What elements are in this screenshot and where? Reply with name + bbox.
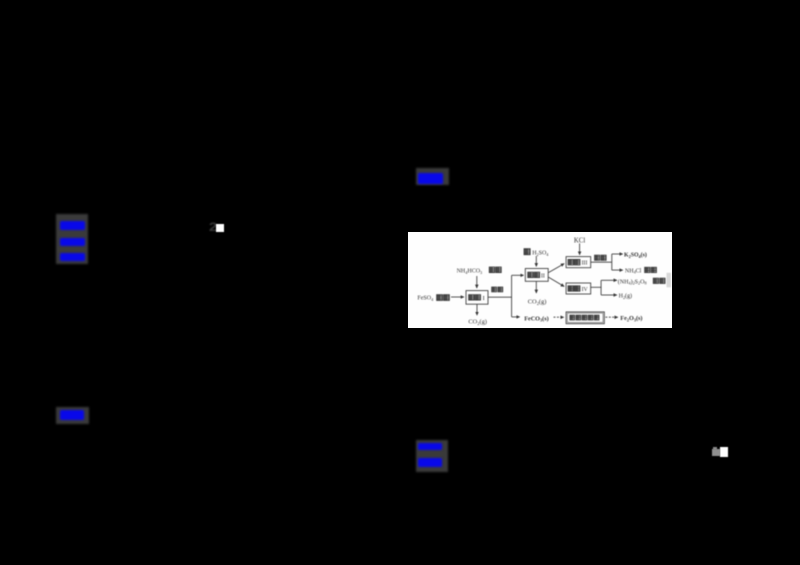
label filter 1 hanzi [492, 287, 503, 292]
svg-text:(NH4)2S2O8: (NH4)2S2O8 [618, 279, 647, 286]
wire: dilute H2SO4 down arrow into box II [535, 256, 537, 266]
label filter 2 hanzi [595, 255, 607, 260]
wire: box II down arrow to CO2(g) [535, 281, 537, 293]
svg-text:NH4Cl: NH4Cl [625, 268, 642, 274]
wire: box III to filter junction [591, 261, 612, 263]
answer highlight group D background (lower-right column) [416, 440, 448, 473]
svg-text:CO2(g): CO2(g) [528, 299, 547, 306]
wire: arrow into reaction II box [512, 274, 524, 276]
svg-text:K2SO4(s): K2SO4(s) [624, 252, 647, 259]
label reaction IV hanzi [568, 286, 588, 293]
label FeSO4 solution hanzi [437, 295, 450, 301]
wire: dashed arrow FeCO3 to calcine box [554, 316, 564, 318]
wire: diagonal box II to box IV [548, 277, 564, 286]
svg-text:CO2(g): CO2(g) [468, 319, 487, 326]
svg-text:H2SO4: H2SO4 [532, 251, 549, 257]
box calcine in air outer [566, 312, 604, 324]
wire: arrow to NH4Cl solution [612, 269, 623, 271]
svg-text:KCl: KCl [574, 238, 585, 245]
svg-text:FeSO4: FeSO4 [417, 296, 434, 302]
box reaction II [525, 269, 548, 282]
wire: arrow to H2(g) [601, 294, 617, 296]
label reaction I hanzi [469, 295, 485, 302]
wire: diagonal box II to box III [548, 264, 564, 273]
box reaction I [466, 291, 488, 305]
label NH4HCO3 solution hanzi [489, 267, 501, 272]
wire: NH4HCO3 solution down arrow into box I [476, 276, 478, 288]
text cursor white block [216, 224, 224, 232]
wire: KCl down arrow into box III [579, 243, 581, 254]
svg-text:H2(g): H2(g) [619, 293, 632, 300]
svg-text:I: I [483, 295, 485, 302]
small icon white block [720, 447, 728, 456]
scan artifact light strip at panel right edge [667, 273, 672, 288]
label (NH4)2S2O8 solution hanzi [653, 278, 665, 283]
answer highlight group A background (top-left) [56, 214, 88, 264]
wire: box IV to junction [591, 286, 601, 288]
answer blue line A1 [60, 221, 86, 230]
wire: arrow to K2SO4(s) [612, 253, 623, 255]
label calcine in air hanzi [570, 315, 599, 320]
answer highlight group C background (lower-left) [56, 407, 90, 425]
answer blue line B1 [418, 173, 443, 184]
svg-text:II: II [541, 273, 545, 279]
wire: vertical junction line [511, 275, 513, 317]
answer blue line D2 [418, 458, 442, 467]
svg-text:IV: IV [582, 287, 589, 293]
wire: arrow to FeCO3(s) [512, 316, 520, 318]
svg-text:NH4HCO3: NH4HCO3 [457, 269, 483, 275]
svg-text:III: III [582, 261, 588, 267]
small icon gray body (bottom-right) [712, 449, 720, 456]
answer blue line A2 [60, 238, 85, 246]
answer highlight group B background (middle-right column) [416, 168, 449, 185]
page number 2 glyph [209, 222, 224, 234]
wire: box I down arrow to CO2(g) [476, 304, 478, 315]
wire: dashed arrow calcine box to Fe2O3 [605, 316, 617, 318]
svg-text:FeCO3(s): FeCO3(s) [524, 315, 549, 322]
wire: junction vertical after box III [611, 254, 613, 270]
small icon gray tab [713, 447, 717, 450]
label reaction II hanzi [528, 272, 545, 279]
answer blue line D1 [418, 443, 442, 450]
wire: FeSO4 solution right arrow into box I [451, 296, 464, 298]
label reaction III hanzi [568, 260, 587, 267]
wire: box I to filter junction [488, 296, 512, 298]
box reaction III [566, 257, 591, 268]
label NH4Cl solution hanzi [645, 267, 657, 272]
flowchart scan white panel [408, 232, 672, 328]
box reaction IV [566, 283, 591, 294]
svg-text:Fe2O3(s): Fe2O3(s) [620, 315, 642, 322]
answer blue line C1 [60, 410, 84, 421]
box calcine in air inner [567, 313, 603, 322]
label dilute hanzi [524, 249, 530, 255]
answer blue line A3 [60, 253, 86, 262]
wire: junction vertical after box IV [600, 280, 602, 295]
wire: arrow to (NH4)2S2O8 solution [601, 279, 617, 281]
